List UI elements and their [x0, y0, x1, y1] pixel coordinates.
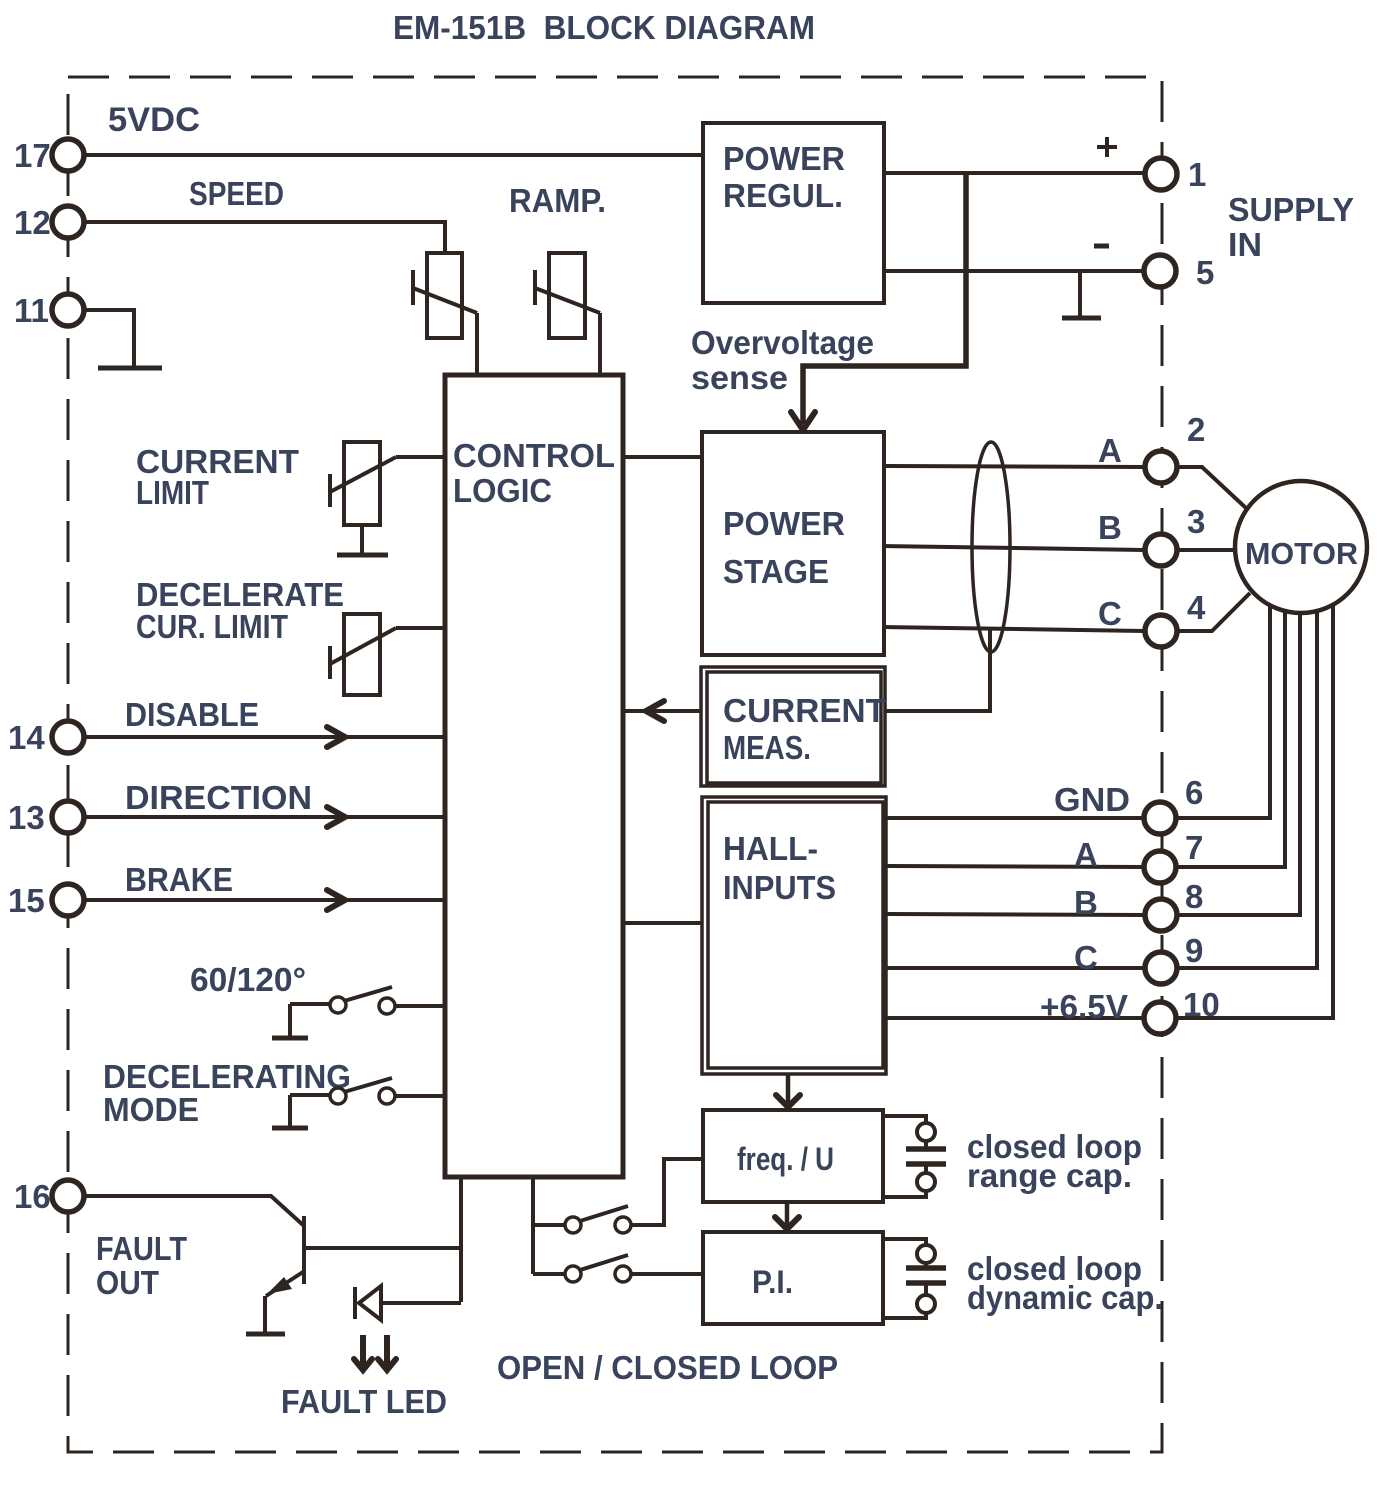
wire freq/U to P.I. with arrow [775, 1202, 799, 1229]
wire terminal 16 to transistor [84, 1196, 303, 1225]
svg-text:15: 15 [8, 882, 45, 919]
terminal 15 [8, 882, 84, 919]
wire hall inputs to freq/U with arrow [776, 1074, 800, 1107]
svg-text:SPEED: SPEED [189, 175, 284, 212]
node closed loop range cap label [967, 1128, 1142, 1194]
wire phase C to terminal 4 [884, 627, 1146, 631]
terminal 3 [1145, 503, 1205, 566]
capacitor closed loop range cap [883, 1116, 946, 1197]
wire +6.5V to terminal 10 [886, 1016, 1145, 1020]
ground at terminal 11 [98, 366, 162, 371]
terminal 1 [1145, 156, 1206, 193]
switch open/closed loop lower [533, 1255, 703, 1282]
svg-text:SUPPLY: SUPPLY [1228, 191, 1354, 228]
svg-text:CURRENT: CURRENT [723, 692, 886, 729]
block HALL-INPUTS double border [702, 797, 886, 1074]
terminal 8 [1145, 878, 1203, 931]
block P.I. [703, 1232, 883, 1324]
motor hall wire terminal 10 [1176, 605, 1333, 1018]
terminal 5 [1144, 254, 1214, 291]
svg-text:GND: GND [1054, 781, 1130, 818]
wire supply plus from power regul to terminal 1 [884, 171, 1146, 175]
svg-text:2: 2 [1187, 411, 1205, 448]
motor M1 [1235, 481, 1367, 613]
terminal 4 [1145, 589, 1206, 647]
svg-text:sense: sense [691, 359, 788, 396]
svg-text:12: 12 [14, 204, 51, 241]
terminal 12 [14, 204, 84, 241]
wire ramp pot wiper to control logic [598, 313, 602, 375]
block CONTROL LOGIC [445, 375, 623, 1177]
svg-text:10: 10 [1183, 986, 1220, 1023]
wire current meas to phase C tap [885, 629, 990, 711]
svg-text:3: 3 [1187, 503, 1205, 540]
svg-text:RAMP.: RAMP. [509, 182, 606, 219]
wire supply minus from power regul to terminal 5 [884, 269, 1145, 273]
node minus label [1094, 244, 1109, 249]
potentiometer SPEED [413, 253, 477, 338]
terminal 14 [8, 719, 84, 756]
terminal 9 [1145, 932, 1203, 984]
svg-text:FAULT LED: FAULT LED [281, 1383, 447, 1420]
ground stub on supply minus [1062, 271, 1101, 318]
wire control logic to power stage [623, 455, 702, 459]
potentiometer RAMP [535, 253, 600, 338]
node DECELERATING MODE label [103, 1058, 351, 1128]
node Overvoltage sense label [691, 324, 874, 396]
wire phase A to terminal 2 [884, 466, 1146, 467]
wire 5VDC from terminal 17 to power regul [84, 153, 704, 157]
wire DISABLE from terminal 14 [84, 727, 445, 747]
svg-text:60/120°: 60/120° [190, 961, 306, 998]
wire BRAKE from terminal 15 [84, 890, 445, 910]
wire hall C to terminal 9 [886, 966, 1146, 970]
wire control logic to fault transistor collector branch [459, 1177, 463, 1302]
svg-text:DIRECTION: DIRECTION [125, 779, 312, 816]
svg-text:range cap.: range cap. [967, 1157, 1132, 1194]
svg-text:B: B [1074, 884, 1098, 921]
block freq/U [703, 1110, 883, 1202]
svg-text:CONTROL: CONTROL [453, 437, 615, 474]
svg-text:CUR. LIMIT: CUR. LIMIT [136, 608, 288, 645]
wire current limit wiper to control logic [396, 455, 445, 459]
svg-text:OUT: OUT [96, 1264, 159, 1301]
svg-text:16: 16 [14, 1178, 51, 1215]
wire current meas to control logic with arrow [623, 701, 701, 721]
node FAULT OUT label [96, 1230, 187, 1301]
svg-text:C: C [1074, 939, 1098, 976]
enclosure dashed border [68, 77, 1162, 1452]
svg-text:freq. / U: freq. / U [737, 1141, 834, 1177]
transistor Q1 fault out [266, 1216, 304, 1296]
svg-text:B: B [1098, 509, 1122, 546]
wire hall B to terminal 8 [886, 914, 1146, 915]
wire transistor emitter to ground [263, 1296, 267, 1334]
wire fault collector to terminal 16 [306, 1246, 461, 1250]
terminal 10 [1144, 986, 1220, 1034]
ground for decelerating mode switch [272, 1095, 308, 1128]
svg-text:9: 9 [1185, 932, 1203, 969]
svg-text:8: 8 [1185, 878, 1203, 915]
terminal 16 [14, 1178, 84, 1215]
svg-text:14: 14 [8, 719, 45, 756]
motor phase wire terminal 2 to motor [1177, 467, 1247, 509]
motor hall wire terminal 9 [1176, 611, 1317, 968]
terminal 11 [14, 292, 84, 329]
wire control logic to hall inputs [623, 921, 702, 925]
motor hall wire terminal 8 [1176, 613, 1300, 915]
svg-text:OPEN / CLOSED LOOP: OPEN / CLOSED LOOP [497, 1349, 838, 1386]
svg-text:dynamic cap.: dynamic cap. [967, 1279, 1163, 1316]
ground below transistor [246, 1332, 285, 1337]
wire overvoltage sense [791, 173, 966, 430]
led light arrows [354, 1335, 396, 1370]
motor phase wire terminal 4 to motor [1177, 593, 1250, 631]
svg-text:A: A [1098, 432, 1122, 469]
svg-text:POWER: POWER [723, 505, 845, 542]
wire current limit pot to ground [360, 525, 364, 553]
svg-text:MODE: MODE [103, 1091, 199, 1128]
wire SPEED from terminal 12 to speed pot [84, 222, 445, 253]
wire DIRECTION from terminal 13 [84, 807, 445, 827]
terminal 6 [1144, 774, 1203, 834]
wire phase B to terminal 3 [884, 546, 1146, 550]
wire hall GND to terminal 6 [886, 816, 1146, 820]
svg-text:+6.5V: +6.5V [1040, 988, 1128, 1025]
block POWER STAGE [702, 432, 884, 655]
svg-text:STAGE: STAGE [723, 553, 829, 590]
ground below current limit pot [337, 553, 388, 558]
svg-text:4: 4 [1187, 589, 1206, 626]
wire speed pot wiper to control logic [475, 313, 479, 375]
svg-text:FAULT: FAULT [96, 1230, 187, 1267]
svg-text:7: 7 [1185, 829, 1203, 866]
svg-text:5: 5 [1196, 254, 1214, 291]
svg-text:C: C [1098, 595, 1122, 632]
node CURRENT LIMIT label [136, 443, 299, 511]
svg-text:BRAKE: BRAKE [125, 861, 233, 898]
motor hall wire terminal 7 [1176, 611, 1285, 867]
terminal 13 [8, 799, 84, 836]
motor phase wire terminal 3 to motor [1177, 548, 1236, 552]
svg-text:REGUL.: REGUL. [723, 177, 843, 214]
svg-text:MEAS.: MEAS. [723, 729, 811, 766]
diode FAULT LED [355, 1286, 381, 1320]
wire terminal 11 to ground [84, 310, 134, 367]
wire control logic to loop switches [531, 1177, 535, 1274]
svg-text:DISABLE: DISABLE [125, 696, 259, 733]
capacitor closed loop dynamic cap [883, 1239, 946, 1318]
potentiometer CURRENT LIMIT [330, 442, 396, 525]
node SUPPLY IN label [1228, 191, 1354, 263]
svg-text:6: 6 [1185, 774, 1203, 811]
svg-text:5VDC: 5VDC [108, 101, 200, 139]
node closed loop dynamic cap label [967, 1250, 1163, 1316]
svg-text:INPUTS: INPUTS [723, 869, 836, 906]
svg-text:IN: IN [1228, 226, 1262, 263]
svg-text:LOGIC: LOGIC [453, 472, 552, 509]
svg-text:P.I.: P.I. [752, 1264, 793, 1300]
svg-text:POWER: POWER [723, 140, 845, 177]
block CURRENT MEAS double border [701, 667, 886, 786]
node plus label [1097, 137, 1117, 157]
potentiometer DECELERATE CUR. LIMIT [330, 614, 396, 695]
wire decelerate pot wiper to control logic [396, 626, 445, 630]
terminal 17 [14, 137, 84, 174]
terminal 7 [1144, 829, 1203, 883]
terminal 2 [1145, 411, 1205, 483]
cable bundle ellipse [972, 442, 1010, 652]
switch DECELERATING MODE [290, 1078, 445, 1104]
svg-text:A: A [1074, 836, 1098, 873]
wire hall A to terminal 7 [886, 866, 1146, 867]
svg-text:LIMIT: LIMIT [136, 474, 209, 511]
switch 60/120 [290, 987, 445, 1014]
svg-text:DECELERATING: DECELERATING [103, 1058, 351, 1095]
motor hall wire terminal 6 [1176, 605, 1270, 818]
switch open/closed loop upper [533, 1159, 703, 1233]
svg-text:1: 1 [1188, 156, 1206, 193]
svg-text:MOTOR: MOTOR [1245, 536, 1358, 571]
ground for 60/120 switch [272, 1004, 308, 1038]
svg-text:EM-151B BLOCK DIAGRAM: EM-151B BLOCK DIAGRAM [393, 9, 815, 46]
svg-text:13: 13 [8, 799, 45, 836]
svg-text:HALL-: HALL- [723, 830, 818, 867]
wire fault led to collector line [382, 1301, 461, 1305]
svg-text:Overvoltage: Overvoltage [691, 324, 874, 361]
svg-text:11: 11 [14, 292, 49, 329]
block POWER REGUL [703, 123, 884, 303]
svg-text:17: 17 [14, 137, 51, 174]
node DECELERATE CUR. LIMIT label [136, 576, 344, 645]
